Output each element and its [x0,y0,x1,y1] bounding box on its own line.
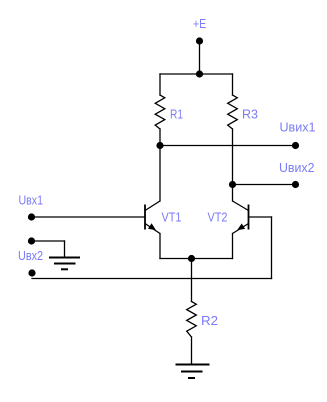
wire +E lead [199,41,201,74]
wire R3 bottom / VT2 collector lead [232,129,234,201]
wire R3 top lead [232,74,234,95]
wire R1 bottom lead [159,129,161,146]
wire top rail [160,73,233,75]
svg-text:Uвих2: Uвих2 [279,160,315,175]
svg-text:VT2: VT2 [208,210,228,225]
resistor R1 [155,95,165,129]
node Uвих2 terminal [292,181,299,188]
wire VT1 emitter lead [159,234,161,259]
wire VT2 emitter lead [232,234,234,259]
wire ground tap horizontal [32,240,65,242]
wire common emitter rail [160,258,233,260]
wire R2 bottom lead [191,337,193,365]
wire R1 top lead [159,74,161,95]
ground (left, at Uвх2 tap) [49,258,80,270]
svg-text:VT1: VT1 [162,210,182,225]
transistor VT2 [233,201,249,234]
svg-text:R1: R1 [170,106,183,121]
wire VT2 base lead [249,216,272,218]
node junction at top rail [196,70,203,77]
node +E terminal [196,37,203,44]
wire input 1 (Uвх1) to VT1 base [32,216,146,218]
node ground tap terminal [28,237,35,244]
wire ground tap vertical [64,241,66,257]
wire output 1 (Uвих1) [160,145,296,147]
node junction R3/VT2 collector [229,181,236,188]
wire VT1 collector lead [159,146,161,202]
resistor R3 [228,95,238,129]
node common emitter junction [188,255,195,262]
node Uвх1 terminal [28,213,35,220]
transistor VT1 [145,201,160,234]
wire R2 top lead [191,259,193,302]
node Uвх2 terminal [28,269,35,276]
node Uвих1 terminal [292,142,299,149]
wire output 2 (Uвих2) [233,184,296,186]
svg-text:R2: R2 [201,313,218,328]
wire input 2 (Uвх2) bottom run [32,278,272,280]
wire right riser to VT2 base [271,217,273,279]
resistor R2 [187,302,197,338]
ground (bottom, below R2) [176,365,210,379]
svg-text:Uвих1: Uвих1 [280,120,316,135]
svg-text:+E: +E [193,16,206,31]
svg-text:Uвх2: Uвх2 [18,248,43,263]
node junction R1/VT1 collector [156,142,163,149]
svg-text:R3: R3 [242,106,258,121]
svg-text:Uвх1: Uвх1 [19,192,44,207]
